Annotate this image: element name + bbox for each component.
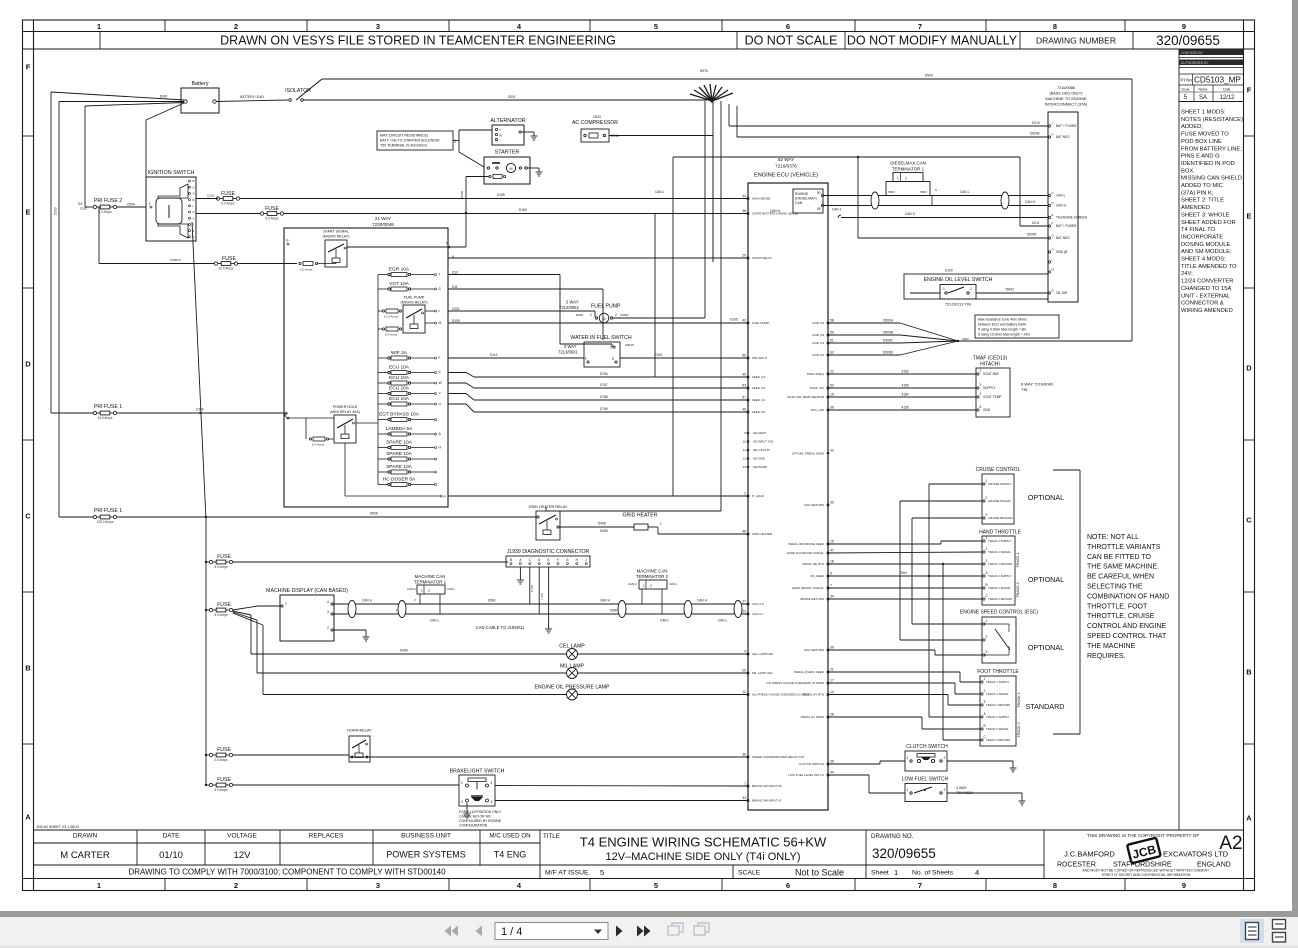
svg-text:2: 2: [428, 589, 430, 593]
svg-text:10: 10: [743, 440, 747, 444]
svg-text:D767: D767: [600, 383, 608, 387]
svg-text:CAN L: CAN L: [655, 190, 665, 194]
svg-text:E: E: [1246, 212, 1251, 221]
svg-text:PI No: PI No: [1181, 78, 1193, 83]
svg-text:D766: D766: [600, 372, 608, 376]
wire fuse to display pin 1: [233, 606, 258, 610]
fuse ECU 10A: [378, 396, 442, 406]
svg-text:D: D: [25, 360, 31, 369]
svg-text:23: 23: [742, 610, 746, 614]
svg-text:1: 1: [285, 602, 287, 606]
fuse SPARE 10A: [378, 451, 437, 461]
wire fuse to start signal relay: [238, 263, 297, 265]
svg-text:POWER SYSTEMS: POWER SYSTEMS: [386, 850, 466, 860]
svg-text:D496: D496: [598, 522, 606, 526]
svg-text:D159: D159: [497, 193, 505, 197]
svg-text:GE GND: GE GND: [753, 457, 766, 461]
svg-text:FUSE: FUSE: [217, 602, 231, 608]
svg-text:MAX CIRCUIT RESISTANCE): MAX CIRCUIT RESISTANCE): [380, 134, 428, 138]
svg-text:OPTIONAL: OPTIONAL: [1028, 575, 1064, 584]
svg-text:D500B: D500B: [883, 331, 893, 335]
svg-text:320/09655: 320/09655: [1156, 33, 1220, 48]
svg-text:THROTTLE, CRUISE: THROTTLE, CRUISE: [1087, 613, 1155, 620]
svg-text:47: 47: [830, 549, 834, 553]
ECU U1 engine ECU vehicle: [748, 157, 828, 810]
wire clutch to ground: [947, 760, 1013, 762]
svg-text:OIL SW: OIL SW: [1056, 291, 1067, 295]
svg-text:LP FUEL PRESS SENS: LP FUEL PRESS SENS: [792, 452, 824, 456]
svg-text:CHANGED TO 15A: CHANGED TO 15A: [1181, 286, 1231, 292]
svg-text:3 WAY: 3 WAY: [564, 344, 577, 349]
svg-text:D4: D4: [78, 202, 82, 206]
svg-text:GND (J2: GND (J2: [812, 353, 824, 357]
svg-text:6: 6: [786, 881, 790, 890]
svg-text:33: 33: [742, 796, 746, 800]
engine oil level switch S4: [904, 269, 1048, 307]
svg-text:CLUTCH SWITCH: CLUTCH SWITCH: [799, 762, 824, 766]
svg-text:MIL LAMP LED: MIL LAMP LED: [752, 671, 773, 675]
engine oil pressure lamp: [263, 685, 748, 701]
svg-text:ESC RETURN: ESC RETURN: [804, 503, 824, 507]
svg-text:HORN RELAY: HORN RELAY: [347, 729, 372, 733]
svg-text:A: A: [25, 813, 31, 822]
svg-text:CRUISE CONTROL: CRUISE CONTROL: [976, 467, 1021, 473]
svg-text:CRUISE SIGNAL: CRUISE SIGNAL: [988, 499, 1012, 503]
svg-text:1: 1: [149, 202, 151, 206]
svg-text:C001: C001: [452, 307, 460, 311]
svg-text:3: 3: [376, 881, 380, 890]
svg-text:125.0 Amps: 125.0 Amps: [97, 520, 114, 524]
svg-text:VOUT BAF: VOUT BAF: [983, 372, 999, 376]
svg-text:C00010: C00010: [170, 258, 181, 262]
svg-text:VGT 10A: VGT 10A: [389, 281, 409, 287]
svg-text:K: K: [1052, 133, 1054, 137]
svg-text:DRAWN: DRAWN: [73, 833, 98, 840]
viewer toolbar controls: [445, 923, 710, 940]
svg-text:42: 42: [830, 449, 834, 453]
svg-text:WIF 3A: WIF 3A: [391, 350, 408, 356]
svg-text:TRACK 1 SUPPLY: TRACK 1 SUPPLY: [986, 680, 1010, 684]
svg-text:L: L: [439, 309, 441, 313]
svg-text:D500F: D500F: [1027, 233, 1037, 237]
svg-text:SPARE 10A: SPARE 10A: [386, 464, 413, 470]
ground brakelight pin 2: [466, 803, 468, 810]
svg-text:BRAKELIGHT SWITCH: BRAKELIGHT SWITCH: [450, 769, 505, 775]
wire AC compressor feed: [609, 136, 713, 263]
svg-text:TRACK 2 RETURN: TRACK 2 RETURN: [986, 738, 1010, 742]
svg-text:6 WAY 7216/0080: 6 WAY 7216/0080: [1021, 382, 1054, 387]
svg-text:START SIGNAL: START SIGNAL: [323, 230, 349, 234]
svg-text:C101: C101: [207, 194, 215, 198]
svg-text:1: 1: [590, 313, 592, 317]
machine CAN H bus: [333, 599, 748, 613]
svg-text:FUSE: FUSE: [222, 256, 236, 262]
svg-text:39: 39: [830, 406, 834, 410]
starter motor M1: [484, 150, 539, 185]
svg-text:27: 27: [742, 600, 746, 604]
svg-text:4156: 4156: [901, 406, 908, 410]
svg-text:ALTERNATOR: ALTERNATOR: [490, 118, 525, 124]
svg-text:7213/0631: 7213/0631: [558, 350, 578, 355]
svg-text:IDENTIFIED IN POD: IDENTIFIED IN POD: [1181, 161, 1235, 167]
svg-text:BAT + FUSED: BAT + FUSED: [1056, 224, 1077, 228]
svg-text:TRACK 1 SIGNAL: TRACK 1 SIGNAL: [986, 692, 1009, 696]
wire isolator to star point: [303, 99, 710, 101]
svg-text:FOOT THROTTLE: FOOT THROTTLE: [977, 669, 1019, 675]
svg-text:ENGINE ECU (VEHICLE): ENGINE ECU (VEHICLE): [754, 173, 818, 179]
svg-text:PEDAL (F) RTN: PEDAL (F) RTN: [803, 693, 824, 697]
TMAF sensor: [973, 356, 1054, 418]
svg-text:6: 6: [786, 22, 790, 31]
svg-text:NOTE: NOT ALL: NOTE: NOT ALL: [1087, 534, 1139, 541]
svg-text:TITLE AMENDED TO: TITLE AMENDED TO: [1181, 264, 1237, 270]
wire ignition to fuse row 1: [196, 198, 218, 200]
svg-text:STANDARD: STANDARD: [1025, 702, 1064, 711]
svg-text:GRID HEATER: GRID HEATER: [752, 532, 773, 536]
svg-text:9: 9: [1182, 22, 1186, 31]
svg-text:DATE: DATE: [163, 833, 181, 840]
MIL lamp: [257, 664, 748, 679]
svg-text:12/24 CONVERTER: 12/24 CONVERTER: [1181, 279, 1233, 285]
svg-text:HITACHI: HITACHI: [980, 362, 1000, 368]
svg-text:C001: C001: [655, 353, 663, 357]
wire fuse box feed E: [284, 413, 286, 417]
window right edge strip: [1292, 0, 1298, 917]
svg-text:FUSE: FUSE: [221, 191, 235, 197]
svg-text:LAMBDA 5A: LAMBDA 5A: [386, 426, 413, 432]
svg-text:1: 1: [907, 756, 909, 760]
JCB logo: [1127, 838, 1161, 864]
svg-text:CLUTCH SWITCH: CLUTCH SWITCH: [906, 744, 948, 750]
svg-text:M: M: [510, 167, 513, 171]
fuse ECU 10A: [378, 375, 443, 385]
svg-text:VOLTAGE: VOLTAGE: [227, 833, 257, 840]
fuel pump motor M2: [559, 300, 629, 323]
svg-text:DO NOT MODIFY MANUALLY: DO NOT MODIFY MANUALLY: [847, 34, 1018, 48]
svg-text:D11: D11: [452, 285, 458, 289]
wire grid heater to ECU pin 48: [600, 529, 748, 534]
svg-text:FUEL PUMP: FUEL PUMP: [591, 304, 621, 310]
svg-text:13: 13: [743, 465, 747, 469]
svg-text:7230/0046: 7230/0046: [372, 222, 394, 227]
svg-text:DRAWING NUMBER: DRAWING NUMBER: [1036, 36, 1116, 46]
pri fuse 1 feed A: [51, 404, 287, 420]
svg-text:COMBINATION OF HAND: COMBINATION OF HAND: [1087, 593, 1169, 600]
svg-text:Sheet: Sheet: [871, 870, 889, 877]
svg-text:4: 4: [491, 781, 493, 785]
svg-text:SPARE 10A: SPARE 10A: [386, 440, 413, 446]
svg-text:CONNECTOR &: CONNECTOR &: [1181, 301, 1224, 307]
svg-text:CRUISE RETURN: CRUISE RETURN: [988, 516, 1013, 520]
svg-text:7212/0113 TIN: 7212/0113 TIN: [945, 302, 971, 307]
svg-text:GND (J4: GND (J4: [812, 321, 824, 325]
svg-text:DRAWN ON VESYS FILE STO: DRAWN ON VESYS FILE STORED IN TEAMCENTER…: [220, 34, 616, 48]
svg-text:DO NOT SCALE: DO NOT SCALE: [745, 34, 838, 48]
svg-text:58: 58: [830, 319, 834, 323]
svg-text:C300: C300: [196, 408, 204, 412]
svg-text:7: 7: [918, 22, 922, 31]
svg-text:1: 1: [421, 589, 423, 593]
svg-text:E: E: [548, 558, 550, 562]
svg-text:ESC RETURN: ESC RETURN: [804, 648, 824, 652]
svg-text:3: 3: [986, 650, 988, 654]
svg-text:B: B: [25, 664, 31, 673]
svg-text:76003: 76003: [1005, 288, 1014, 292]
isolator switch: [285, 79, 322, 101]
svg-text:CAN L: CAN L: [1056, 194, 1066, 198]
fuse HC DOSER 5A: [378, 477, 437, 487]
svg-text:STRICTLY SECRET AND CONFIDE: STRICTLY SECRET AND CONFIDENTIAL INFORMA…: [1102, 873, 1191, 877]
svg-text:4: 4: [327, 600, 329, 604]
svg-text:SUPPLY: SUPPLY: [983, 386, 996, 390]
ECU left pins: [742, 194, 809, 803]
svg-text:11: 11: [743, 448, 746, 452]
svg-text:DIESELMAX CAN: DIESELMAX CAN: [890, 161, 926, 166]
wire display pin 2 to ground: [333, 629, 366, 631]
svg-text:62 WAY: 62 WAY: [778, 157, 794, 162]
svg-text:4153: 4153: [901, 370, 908, 374]
battery: [181, 81, 219, 113]
svg-text:THE MACHINE: THE MACHINE: [1087, 643, 1136, 650]
svg-text:S500: S500: [610, 609, 618, 613]
svg-text:MACHINE TO ENGINE: MACHINE TO ENGINE: [1045, 96, 1087, 101]
svg-text:6: 6: [830, 572, 832, 576]
fuse SPARE 10A: [378, 440, 442, 450]
svg-text:Y RD: Y RD: [540, 593, 544, 600]
svg-text:SHEET 3: WHOLE: SHEET 3: WHOLE: [1181, 212, 1230, 218]
svg-text:12/12: 12/12: [1219, 95, 1235, 101]
svg-text:CAN L: CAN L: [447, 587, 456, 591]
svg-text:Battery: Battery: [191, 81, 208, 87]
J1939 diagnostic connector X1: [506, 549, 590, 567]
svg-text:BAT NEG: BAT NEG: [1056, 135, 1070, 139]
wire ECU to clutch switch: [828, 763, 880, 765]
svg-text:SHEET ADDED FOR: SHEET ADDED FOR: [1181, 220, 1236, 226]
svg-text:M: M: [439, 321, 442, 325]
wire fuse to ECU pin 38 start sense: [284, 208, 748, 214]
svg-text:TRACK 2 SIGNAL: TRACK 2 SIGNAL: [986, 727, 1009, 731]
svg-text:22: 22: [830, 370, 834, 374]
wire J1939 pin E shield to ground: [548, 567, 550, 625]
fuse ECU 10A: [378, 386, 442, 396]
wire starter solenoid trigger: [460, 177, 489, 248]
svg-text:PRI FUSE 1: PRI FUSE 1: [94, 508, 122, 514]
wires ECU to foot throttle: [828, 563, 980, 740]
svg-text:8: 8: [1053, 881, 1057, 890]
cruise control connector: [976, 467, 1021, 524]
wire start relay to starter solenoid: [347, 242, 466, 260]
low fuel switch S6: [902, 777, 973, 802]
svg-text:F: F: [1052, 222, 1054, 226]
brakelight note: [459, 810, 502, 828]
svg-text:GND (B: GND (B: [1056, 250, 1067, 254]
svg-text:320/09655: 320/09655: [872, 846, 936, 861]
svg-text:BAT NEG: BAT NEG: [1056, 236, 1070, 240]
svg-text:45: 45: [817, 207, 821, 211]
svg-text:5.0 Amps: 5.0 Amps: [312, 443, 325, 447]
fuse brakelight feed: [206, 777, 233, 792]
svg-text:5.0 Amps: 5.0 Amps: [214, 788, 228, 792]
svg-text:CAN H: CAN H: [362, 599, 373, 603]
title block: [34, 830, 1244, 879]
svg-text:STG_U06: STG_U06: [811, 408, 825, 412]
wire battery positive fan to left buses: [51, 92, 184, 517]
svg-text:21: 21: [830, 668, 834, 672]
svg-text:ENGINE OIL LEVEL SWITCH: ENGINE OIL LEVEL SWITCH: [924, 277, 993, 283]
svg-text:(MICRO RELAY): (MICRO RELAY): [401, 301, 428, 305]
svg-text:Not to Scale: Not to Scale: [795, 868, 844, 878]
svg-text:TERMINATOR 2: TERMINATOR 2: [636, 574, 669, 579]
svg-text:20: 20: [742, 669, 746, 673]
svg-text:FUSE: FUSE: [217, 777, 231, 783]
machine CAN terminator 1: [407, 574, 456, 614]
svg-text:D10: D10: [452, 271, 458, 275]
svg-text:CAN CABLE TO J1939/11: CAN CABLE TO J1939/11: [476, 625, 525, 630]
svg-text:Issue: Issue: [1181, 88, 1189, 92]
svg-text:FUSE: FUSE: [217, 554, 231, 560]
svg-text:ENGINE: ENGINE: [795, 192, 809, 196]
svg-text:(MICRO RELAY): (MICRO RELAY): [323, 235, 350, 239]
svg-text:PEDAL (F)/ESV FEED: PEDAL (F)/ESV FEED: [794, 670, 825, 674]
wire brakelight pin 3 to ECU pin 33: [495, 800, 748, 802]
svg-text:GND: GND: [983, 408, 991, 412]
svg-text:2: 2: [944, 756, 946, 760]
wire fuse M to ECU pin 40: [448, 318, 748, 324]
wire brakelight feed: [233, 784, 459, 786]
ECU CAN H out: [770, 200, 1048, 213]
svg-text:2: 2: [944, 788, 946, 792]
svg-text:BAT + FUSED: BAT + FUSED: [1056, 124, 1077, 128]
svg-text:NOTES (RESISTANCE): NOTES (RESISTANCE): [1181, 117, 1243, 123]
svg-text:S: S: [413, 599, 417, 601]
svg-text:D508: D508: [370, 512, 378, 516]
svg-text:5.0 Amps: 5.0 Amps: [214, 565, 228, 569]
interconnect star point: [690, 69, 733, 103]
svg-text:FUSE: FUSE: [265, 206, 279, 212]
svg-text:5.0 Amps: 5.0 Amps: [385, 333, 398, 337]
svg-text:D769: D769: [600, 407, 608, 411]
svg-text:14: 14: [830, 690, 834, 694]
svg-text:H: H: [1052, 248, 1054, 252]
svg-text:-: -: [499, 139, 500, 143]
ECU right pins: [766, 319, 833, 778]
svg-text:12: 12: [743, 457, 747, 461]
svg-text:STARTER: STARTER: [495, 150, 520, 156]
svg-text:No. of Sheets: No. of Sheets: [912, 870, 954, 877]
svg-text:AND SM MODULE;: AND SM MODULE;: [1181, 249, 1232, 255]
svg-text:(MINI RELAY 40A): (MINI RELAY 40A): [330, 410, 360, 414]
svg-text:40: 40: [742, 319, 746, 323]
svg-text:12: 12: [742, 690, 746, 694]
svg-text:If using 4.0mm Max length = 8m: If using 4.0mm Max length = 8m: [978, 328, 1027, 332]
svg-text:3: 3: [376, 22, 380, 31]
svg-text:ENGINE SPEED CONTROL (ESC): ENGINE SPEED CONTROL (ESC): [960, 610, 1038, 616]
svg-text:4: 4: [975, 868, 979, 877]
svg-text:POD BOX LINE: POD BOX LINE: [1181, 139, 1222, 145]
svg-text:MISSING CAN SHIELD: MISSING CAN SHIELD: [1181, 176, 1242, 182]
svg-text:GE PUMP: GE PUMP: [753, 465, 767, 469]
svg-text:1: 1: [660, 522, 662, 526]
svg-text:HIGH SENSE: HIGH SENSE: [752, 197, 771, 201]
svg-text:LOW FUEL LEVEL INP LO: LOW FUEL LEVEL INP LO: [788, 773, 825, 777]
wire WIF feed from fuse F: [448, 357, 584, 359]
svg-text:7: 7: [830, 584, 832, 588]
svg-text:CAN A H: CAN A H: [752, 602, 764, 606]
svg-text:5: 5: [980, 405, 982, 409]
svg-text:BOX.: BOX.: [1181, 168, 1195, 174]
svg-text:28: 28: [830, 713, 834, 717]
svg-text:TRACK 1 RETURN: TRACK 1 RETURN: [986, 703, 1010, 707]
svg-text:1: 1: [97, 881, 101, 890]
svg-text:F: F: [1247, 86, 1252, 95]
relay K1 start signal micro relay: [286, 230, 349, 272]
svg-text:ECU 10A: ECU 10A: [389, 396, 410, 402]
svg-text:AMENDED: AMENDED: [1181, 205, 1210, 211]
svg-text:4 WAY: 4 WAY: [956, 786, 967, 790]
svg-text:PEDAL (B) RTN: PEDAL (B) RTN: [802, 562, 824, 566]
svg-text:44: 44: [830, 771, 834, 775]
fuse diagnostic feed: [206, 554, 233, 569]
svg-text:CAN L: CAN L: [669, 582, 678, 586]
svg-text:SHEET 2: TITLE: SHEET 2: TITLE: [1181, 198, 1224, 204]
svg-text:2: 2: [986, 635, 988, 639]
svg-text:(37A) PIN K;: (37A) PIN K;: [1181, 190, 1214, 196]
svg-text:HAND THROTTLE: HAND THROTTLE: [979, 530, 1022, 536]
revision panel: [1179, 49, 1244, 830]
svg-text:OIL PRESS GAUGE F(SENDER) (N S: OIL PRESS GAUGE F(SENDER) (N SENS: [766, 681, 824, 685]
svg-text:8: 8: [1053, 22, 1057, 31]
svg-text:2: 2: [980, 369, 982, 373]
ECU CAN L out: [655, 190, 1048, 196]
svg-text:2 WAY: 2 WAY: [566, 300, 579, 305]
ignition switch S1: [146, 170, 196, 241]
svg-text:CAN L: CAN L: [960, 190, 970, 194]
svg-text:D112: D112: [490, 353, 498, 357]
pri fuse 1 feed B: [59, 508, 536, 524]
svg-text:01/10: 01/10: [159, 850, 183, 861]
svg-text:SPEED CONTROL THAT: SPEED CONTROL THAT: [1087, 633, 1167, 640]
svg-text:ECU 10A: ECU 10A: [389, 386, 410, 392]
svg-text:D001: D001: [160, 95, 168, 99]
wire WIF to ECU pin 56: [620, 353, 748, 358]
svg-text:M/C USED ON: M/C USED ON: [489, 833, 530, 840]
machine CAN L bus: [333, 609, 748, 623]
fuse VGT 10A: [378, 281, 458, 291]
svg-text:52: 52: [830, 384, 834, 388]
svg-text:GRID HEATER RELAY: GRID HEATER RELAY: [529, 505, 568, 509]
svg-text:7212/0052: 7212/0052: [559, 305, 579, 310]
svg-text:CAN L: CAN L: [718, 619, 728, 623]
wire ignition to accessory bus diagonal: [192, 222, 207, 786]
svg-text:OPTIONAL: OPTIONAL: [1028, 643, 1064, 652]
hand throttle connector: [979, 530, 1022, 606]
svg-text:2: 2: [234, 881, 238, 890]
svg-text:M/F AT ISSUE: M/F AT ISSUE: [545, 870, 589, 877]
svg-text:CAN H: CAN H: [1056, 204, 1067, 208]
engine speed control ESC: [960, 610, 1038, 664]
svg-text:EXCAVATORS LTD: EXCAVATORS LTD: [1163, 850, 1229, 859]
wire ECU feeds from fuses X W Y U: [448, 372, 748, 412]
wire alternator feed: [453, 130, 492, 167]
svg-text:FEED (J2: FEED (J2: [752, 410, 765, 414]
svg-text:CAN L: CAN L: [660, 619, 670, 623]
svg-text:WATER IN FUEL SWITCH: WATER IN FUEL SWITCH: [570, 335, 631, 341]
svg-text:2: 2: [615, 313, 617, 317]
svg-text:A: A: [193, 192, 195, 196]
svg-text:between ECU and Battery Earth.: between ECU and Battery Earth.: [978, 323, 1027, 327]
svg-text:R: R: [193, 198, 195, 202]
svg-text:5.0 Amps: 5.0 Amps: [214, 613, 228, 617]
